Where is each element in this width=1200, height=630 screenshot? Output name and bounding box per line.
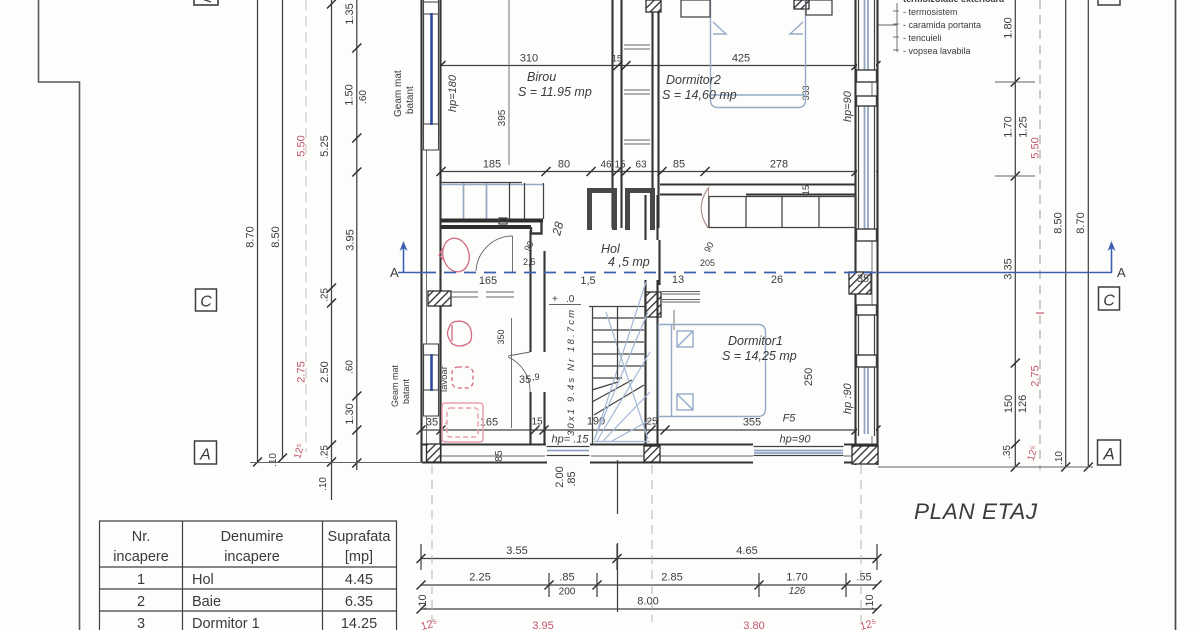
exterior right wall bbox=[856, 0, 878, 465]
bottom axis dashed verticals bbox=[431, 465, 433, 622]
left dim chain 5.25 / 2.50 bbox=[318, 0, 336, 500]
svg-text:- tencuieli: - tencuieli bbox=[903, 33, 942, 43]
svg-text:3: 3 bbox=[137, 616, 145, 630]
svg-text:15: 15 bbox=[531, 417, 543, 428]
svg-text:A: A bbox=[1117, 265, 1126, 280]
svg-text:.25: .25 bbox=[320, 445, 331, 459]
svg-text:205: 205 bbox=[700, 258, 715, 268]
svg-text:8.00: 8.00 bbox=[637, 596, 658, 608]
marker A left bbox=[195, 441, 217, 464]
svg-text:150: 150 bbox=[1003, 395, 1015, 413]
svg-text:2.85: 2.85 bbox=[661, 572, 682, 584]
right corner extension line bbox=[878, 466, 1093, 468]
room label Dormitor2 bbox=[662, 73, 737, 102]
svg-text:.60: .60 bbox=[345, 360, 356, 374]
top inner dim line 310/15/425/35 bbox=[421, 53, 881, 71]
chimney duct C1 bbox=[590, 191, 615, 231]
svg-text:A: A bbox=[390, 265, 399, 280]
svg-text:2.25: 2.25 bbox=[469, 572, 490, 584]
hatch column bottom right corner bbox=[852, 446, 878, 464]
svg-text:incapere: incapere bbox=[224, 549, 280, 565]
hatch column center (stair corner) bbox=[645, 292, 661, 317]
svg-text:126: 126 bbox=[789, 586, 806, 597]
door tag 90/205 hol right bbox=[700, 240, 716, 268]
table incaperi bbox=[99, 521, 397, 630]
dormitor1 door arc bbox=[701, 187, 709, 228]
bed dormitor2 bbox=[711, 0, 806, 108]
svg-text:.60: .60 bbox=[358, 90, 369, 104]
room label Birou bbox=[518, 70, 592, 99]
wc toilet red bbox=[439, 235, 473, 274]
hatch column top right of bed bbox=[794, 0, 809, 9]
svg-text:4.45: 4.45 bbox=[345, 572, 373, 588]
marker C left bbox=[196, 289, 217, 311]
left detail chain 1.35/1.50/.60/3.95/.60/1.30 bbox=[344, 0, 370, 470]
svg-text:3.95: 3.95 bbox=[345, 229, 357, 250]
svg-text:hp=180: hp=180 bbox=[447, 74, 459, 112]
svg-text:batant: batant bbox=[401, 378, 411, 404]
svg-text:Birou: Birou bbox=[527, 70, 556, 84]
left red axis chain 5.50 / 2.75 bbox=[292, 0, 307, 460]
svg-text:2: 2 bbox=[137, 594, 145, 610]
svg-text:8.70: 8.70 bbox=[1075, 212, 1087, 233]
marker A right bbox=[1098, 440, 1121, 465]
right dim chain 8.70 bbox=[1075, 0, 1093, 472]
svg-text:13: 13 bbox=[672, 274, 684, 286]
marker C right bbox=[1099, 287, 1120, 310]
svg-text:termoizolatie exterioara: termoizolatie exterioara bbox=[903, 0, 1005, 4]
bottom red axis labels bbox=[420, 617, 878, 630]
svg-text:Dormitor 1: Dormitor 1 bbox=[192, 616, 260, 630]
birou interior dim ext line bbox=[508, 0, 510, 165]
stairs upper flight bbox=[441, 183, 544, 220]
interior wall Birou/Dormitor2 bbox=[613, 0, 622, 228]
svg-text:.25: .25 bbox=[320, 288, 331, 302]
svg-text:Geam mat: Geam mat bbox=[393, 70, 404, 117]
wc door arc + leaf bbox=[476, 236, 513, 273]
svg-text:Dormitor2: Dormitor2 bbox=[666, 73, 721, 87]
svg-text:1.50: 1.50 bbox=[344, 84, 356, 105]
svg-text:1: 1 bbox=[137, 572, 145, 588]
svg-text:Dormitor1: Dormitor1 bbox=[728, 334, 783, 348]
svg-text:3.55: 3.55 bbox=[506, 545, 527, 557]
svg-text:3.35: 3.35 bbox=[1003, 258, 1015, 279]
svg-text:hp :90: hp :90 bbox=[842, 383, 854, 414]
right wall window top bbox=[857, 0, 877, 82]
bottom outer chain 3.55 / 4.65 bbox=[417, 544, 882, 570]
svg-text:85: 85 bbox=[673, 159, 685, 171]
svg-text:- caramida portanta: - caramida portanta bbox=[903, 20, 981, 30]
interior wall Dormitor2 left bbox=[653, 12, 659, 228]
svg-text:15: 15 bbox=[614, 160, 626, 171]
svg-text:26: 26 bbox=[771, 274, 783, 286]
svg-text:35: 35 bbox=[857, 273, 869, 285]
svg-text:.55: .55 bbox=[856, 572, 871, 584]
left corner extension line bbox=[250, 462, 421, 464]
svg-text:8.50: 8.50 bbox=[270, 226, 282, 247]
svg-text:25: 25 bbox=[646, 417, 658, 428]
svg-text:185: 185 bbox=[483, 159, 501, 171]
svg-text:126: 126 bbox=[1017, 395, 1029, 413]
stair center landing line bbox=[617, 306, 619, 380]
hatch column bottom left corner bbox=[427, 444, 441, 462]
top-left cut marker box bbox=[194, 0, 218, 5]
adjacent drawing edge polyline bbox=[39, 0, 80, 630]
right frame line bbox=[1175, 0, 1177, 630]
svg-text:3.80: 3.80 bbox=[743, 620, 764, 630]
legend top right bbox=[878, 0, 1005, 56]
svg-text:.85: .85 bbox=[566, 471, 578, 486]
hatch column right mid bbox=[849, 272, 871, 294]
right detail chain 1.80/1.70/3.35/150/35 bbox=[995, 0, 1042, 472]
svg-text:395: 395 bbox=[497, 109, 508, 126]
svg-text:.10: .10 bbox=[268, 453, 279, 467]
svg-text:Baie: Baie bbox=[192, 594, 221, 610]
svg-text:2.50: 2.50 bbox=[319, 361, 331, 382]
geam mat batant baie bbox=[390, 364, 411, 407]
svg-text:355: 355 bbox=[743, 417, 761, 429]
svg-text:.10: .10 bbox=[318, 477, 329, 491]
left wall window 1 (hp=180) bbox=[423, 0, 440, 150]
svg-text:425: 425 bbox=[732, 53, 750, 65]
baie door arc bbox=[508, 352, 530, 392]
left dim chain 8.50 bbox=[270, 0, 287, 463]
svg-text:1,5: 1,5 bbox=[580, 275, 595, 287]
baie toilet red bbox=[448, 321, 472, 346]
door tag 90/205 hol left bbox=[522, 239, 536, 267]
svg-text:80: 80 bbox=[558, 159, 570, 171]
wc left wall below hatch bbox=[439, 306, 441, 444]
svg-text:1.80: 1.80 bbox=[1003, 17, 1015, 38]
svg-text:Denumire: Denumire bbox=[221, 529, 284, 545]
svg-text:1.70: 1.70 bbox=[1003, 116, 1015, 137]
svg-text:278: 278 bbox=[770, 159, 788, 171]
svg-text:.0: .0 bbox=[566, 294, 575, 305]
interior wall stair/dormitor1 bbox=[646, 195, 660, 444]
svg-text:5.25: 5.25 bbox=[319, 135, 331, 156]
exterior bottom wall bbox=[422, 445, 879, 463]
hatch column top mid bbox=[646, 0, 661, 12]
bottom outer chain 8.00 bbox=[417, 594, 882, 613]
svg-text:C: C bbox=[200, 294, 212, 311]
bottom wall window 1 bbox=[545, 446, 591, 458]
svg-text:63: 63 bbox=[635, 160, 647, 171]
svg-text:14.25: 14.25 bbox=[341, 616, 377, 630]
right dim chain 8.50 bbox=[1053, 0, 1071, 472]
svg-text:,9: ,9 bbox=[532, 372, 540, 382]
svg-text:.85: .85 bbox=[559, 572, 574, 584]
right axis dashed line bbox=[1039, 0, 1041, 470]
svg-text:A: A bbox=[199, 447, 211, 464]
svg-text:.35: .35 bbox=[1002, 445, 1013, 459]
section line A-A bbox=[390, 241, 1126, 280]
baie dim ext line bbox=[511, 318, 513, 428]
svg-text:- termosistem: - termosistem bbox=[903, 7, 958, 17]
stair winder lines light blue bbox=[594, 282, 650, 442]
svg-text:4.65: 4.65 bbox=[736, 545, 757, 557]
svg-text:.10: .10 bbox=[864, 594, 876, 609]
bottom center extension line bbox=[617, 460, 619, 514]
svg-text:hp=90: hp=90 bbox=[842, 90, 854, 122]
svg-text:250: 250 bbox=[803, 368, 815, 386]
baie bidet red dashed bbox=[452, 367, 473, 388]
left dim chain 8.70 bbox=[245, 0, 280, 467]
left wall window 2 (bath) bbox=[423, 344, 440, 416]
bed dormitor1 bbox=[659, 325, 766, 417]
svg-text:2,5: 2,5 bbox=[523, 257, 536, 267]
marker B top right (cut) bbox=[1098, 0, 1120, 5]
level mark bbox=[549, 294, 581, 305]
chimney duct C2 bbox=[628, 191, 653, 231]
hatch column left mid (bath corner) bbox=[428, 291, 451, 306]
nightstand right dormitor2 bbox=[806, 0, 832, 15]
svg-text:2.00: 2.00 bbox=[554, 466, 566, 487]
exterior left wall bbox=[422, 0, 441, 462]
right wall window mid bbox=[857, 96, 877, 241]
window label geam mat batant top bbox=[393, 70, 416, 117]
hol top wall left (under stairs) bbox=[441, 218, 566, 238]
wardrobe dormitor1 bbox=[709, 197, 856, 228]
bottom wall window 2 (terrace) bbox=[753, 446, 844, 458]
svg-text:lavoar: lavoar bbox=[439, 366, 450, 392]
svg-text:8.50: 8.50 bbox=[1053, 212, 1065, 233]
svg-text:6.35: 6.35 bbox=[345, 594, 373, 610]
svg-text:35: 35 bbox=[426, 417, 438, 429]
svg-text:Suprafata: Suprafata bbox=[328, 529, 392, 545]
hatch column bottom center bbox=[644, 446, 660, 462]
svg-text:1.70: 1.70 bbox=[786, 572, 807, 584]
nightstand left dormitor2 bbox=[681, 0, 710, 17]
bottom inner dim line 35/165/15/190/25/355/25 bbox=[417, 413, 881, 462]
svg-text:Hol: Hol bbox=[192, 572, 214, 588]
shower tray pink bbox=[442, 403, 483, 442]
svg-text:Nr.: Nr. bbox=[132, 529, 151, 545]
svg-text:+: + bbox=[552, 294, 558, 305]
svg-text:.10: .10 bbox=[1054, 451, 1065, 465]
svg-text:8.70: 8.70 bbox=[245, 226, 257, 247]
room label Dormitor1 bbox=[722, 334, 797, 363]
shaft dashes bbox=[624, 45, 650, 144]
svg-text:2.75: 2.75 bbox=[296, 361, 308, 382]
svg-text:S = 11.95 mp: S = 11.95 mp bbox=[518, 85, 592, 99]
svg-text:C: C bbox=[1103, 293, 1115, 310]
svg-text:35: 35 bbox=[519, 374, 531, 386]
svg-text:A: A bbox=[1102, 445, 1114, 464]
svg-text:46: 46 bbox=[600, 160, 612, 171]
interior dim line 185/80/46/15/63/85/278 bbox=[437, 85, 879, 195]
svg-text:[mp]: [mp] bbox=[345, 549, 373, 565]
svg-text:1.35: 1.35 bbox=[344, 3, 356, 24]
svg-text:200: 200 bbox=[559, 587, 576, 598]
svg-text:165: 165 bbox=[479, 275, 497, 287]
svg-text:.10: .10 bbox=[417, 594, 429, 609]
svg-text:incapere: incapere bbox=[113, 549, 169, 565]
svg-text:3.95: 3.95 bbox=[532, 620, 553, 630]
bottom outer chain 2.25/.85/2.85/1.70/.55 bbox=[417, 572, 882, 598]
svg-text:350: 350 bbox=[496, 329, 506, 344]
svg-text:batant: batant bbox=[405, 86, 416, 114]
svg-text:S = 14,60 mp: S = 14,60 mp bbox=[662, 88, 737, 102]
svg-text:F5: F5 bbox=[783, 413, 797, 425]
svg-text:310: 310 bbox=[520, 53, 538, 65]
svg-text:Hol: Hol bbox=[601, 242, 621, 256]
svg-text:S = 14,25 mp: S = 14,25 mp bbox=[722, 349, 797, 363]
stair room main flight bbox=[589, 306, 645, 444]
room label Hol bbox=[601, 242, 650, 269]
interior wall baie right / stair left bbox=[531, 231, 545, 444]
hol floor dashes bbox=[450, 292, 514, 297]
svg-text:hp=90: hp=90 bbox=[780, 434, 812, 446]
svg-text:1.30: 1.30 bbox=[344, 403, 356, 424]
svg-text:PLAN ETAJ: PLAN ETAJ bbox=[914, 499, 1038, 524]
svg-text:- vopsea lavabila: - vopsea lavabila bbox=[903, 46, 971, 56]
right wall window low bbox=[857, 305, 877, 436]
svg-text:5.50: 5.50 bbox=[296, 135, 308, 156]
hol top wall right bbox=[660, 185, 856, 195]
labels on section line: 165 / 13 / 26 / 35 bbox=[479, 273, 869, 287]
svg-text:1.25: 1.25 bbox=[1018, 116, 1030, 137]
svg-text:Geam mat: Geam mat bbox=[390, 364, 400, 407]
svg-text:4 ,5 mp: 4 ,5 mp bbox=[608, 255, 650, 269]
